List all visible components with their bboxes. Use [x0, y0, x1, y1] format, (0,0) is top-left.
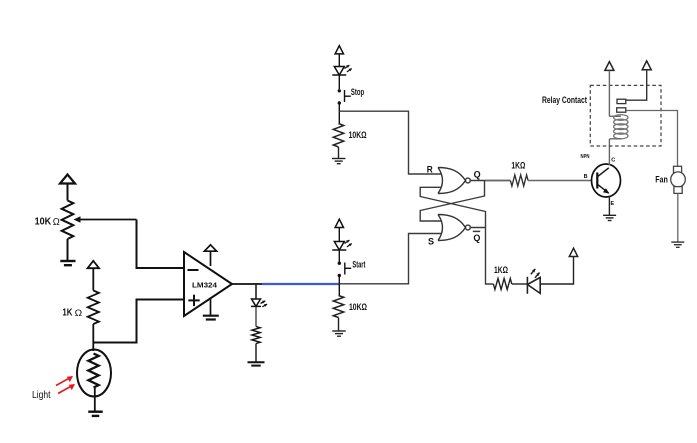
power arrow V+ (1K resistor) [88, 261, 100, 268]
potentiometer wiper arrow [77, 219, 137, 221]
fan motor M [674, 166, 682, 172]
power arrow V+ (Qbar LED) [569, 248, 577, 256]
wire [92, 324, 94, 351]
resistor 10K (Stop pulldown) [333, 124, 343, 148]
pushbutton Start [338, 262, 341, 265]
NOR gate U2B (bottom) [438, 215, 466, 241]
power arrow V+ (potentiometer) [60, 175, 75, 184]
ground (emitter) [603, 214, 616, 216]
resistor 1K (base) [510, 175, 528, 186]
wire LED to power arrow [540, 257, 573, 285]
wire Qbar down to LED branch [470, 228, 493, 285]
resistor 1K (Qbar LED) [493, 279, 511, 290]
transistor Q1 NPN [592, 164, 621, 197]
wire cross-coupling Q to U2B input [420, 181, 484, 222]
op-amp ground [210, 298, 212, 316]
ground (fan) [671, 241, 684, 243]
wire [338, 318, 340, 332]
wire (blue net) op-amp output to Start node [262, 283, 339, 285]
power arrow V+ (relay contact) [642, 61, 651, 70]
svg-text:C: C [611, 158, 615, 164]
svg-text:Q: Q [474, 170, 481, 181]
wire [338, 105, 340, 124]
svg-text:NPN: NPN [581, 154, 590, 160]
svg-text:Relay Contact: Relay Contact [542, 95, 588, 106]
svg-text:Ω: Ω [53, 217, 60, 228]
wire wiper to op-amp inverting input [137, 220, 185, 269]
svg-text:E: E [611, 201, 615, 207]
wire resistor to base [528, 180, 591, 182]
svg-text:S: S [428, 237, 434, 248]
light arrows (red) [56, 378, 70, 386]
svg-text:10KΩ: 10KΩ [349, 302, 367, 313]
op-amp minus input [188, 269, 199, 271]
wire Q output [470, 180, 510, 182]
ground (potentiometer) [60, 260, 75, 262]
ground (Start resistor) [332, 330, 346, 332]
svg-text:Q: Q [473, 233, 480, 244]
svg-text:B: B [584, 174, 588, 180]
LED (Qbar indicator, pointing left) [526, 277, 528, 294]
op-amp power arrow [204, 245, 216, 251]
relay dashed enclosure [590, 85, 661, 146]
power arrow V+ (Start) [335, 219, 343, 227]
relay coil [614, 115, 628, 121]
wire [338, 54, 340, 67]
svg-text:LM324: LM324 [192, 281, 217, 290]
wire [255, 344, 257, 363]
svg-text:1K: 1K [62, 308, 73, 319]
resistor (LED series) [252, 327, 260, 344]
wire cross-coupling Qbar to U2A input [420, 187, 485, 227]
svg-text:Ω: Ω [75, 308, 83, 319]
power arrow V+ (relay coil) [605, 62, 614, 71]
wire Q to base resistor [485, 180, 510, 182]
wire emitter to ground [608, 196, 610, 216]
LED (Stop indicator) [334, 67, 344, 76]
ground (LDR) [88, 411, 103, 413]
svg-text:R: R [427, 164, 433, 175]
ground (Stop resistor) [332, 158, 346, 160]
LED (Start indicator) [334, 242, 344, 251]
svg-text:10K: 10K [35, 216, 52, 228]
wire [338, 250, 340, 262]
svg-text:Light: Light [32, 390, 51, 401]
svg-text:Fan: Fan [655, 175, 668, 186]
wire contact supply [626, 70, 647, 101]
wire [512, 283, 528, 285]
node junction 1K/LDR to op-amp non-inverting input [93, 300, 184, 343]
power arrow V+ (Stop) [335, 46, 343, 54]
wire Stop node to R input [339, 111, 441, 174]
wire [338, 147, 340, 159]
svg-text:Start: Start [352, 259, 365, 269]
NOR gate U2A (top) [438, 168, 466, 194]
LDR resistor zigzag [88, 354, 98, 388]
LDR photoresistor body [77, 350, 111, 397]
svg-text:10KΩ: 10KΩ [349, 130, 367, 141]
relay contact (moving) [617, 108, 626, 112]
wire [67, 184, 69, 201]
LED D1 (output indicator) [252, 299, 261, 306]
svg-text:1KΩ: 1KΩ [494, 265, 508, 275]
op-amp plus input [188, 299, 199, 301]
wire [255, 306, 257, 326]
wire contact to fan [626, 111, 678, 167]
wire output node down to LED [255, 284, 257, 299]
svg-text:1KΩ: 1KΩ [511, 161, 525, 171]
wire [92, 268, 94, 290]
wire Start node to S input [339, 234, 441, 284]
resistor 10K (Start pulldown) [333, 296, 343, 318]
wire LDR to ground [94, 388, 96, 412]
op-amp U1 LM324 body [184, 252, 232, 316]
wire [338, 75, 340, 89]
wire op-amp output [232, 283, 262, 285]
pushbutton Stop [338, 89, 341, 92]
wire collector to relay coil [608, 139, 610, 166]
wire fan to ground [677, 193, 679, 242]
wire [338, 228, 340, 242]
relay contact (fixed) [617, 99, 626, 103]
wire [67, 239, 69, 261]
wire [338, 277, 340, 296]
svg-text:Stop: Stop [351, 87, 365, 97]
resistor 1K ohm [88, 291, 99, 325]
potentiometer 10K ohm [62, 201, 74, 240]
wire coil supply [608, 70, 610, 116]
ground (LED resistor) [248, 361, 265, 363]
